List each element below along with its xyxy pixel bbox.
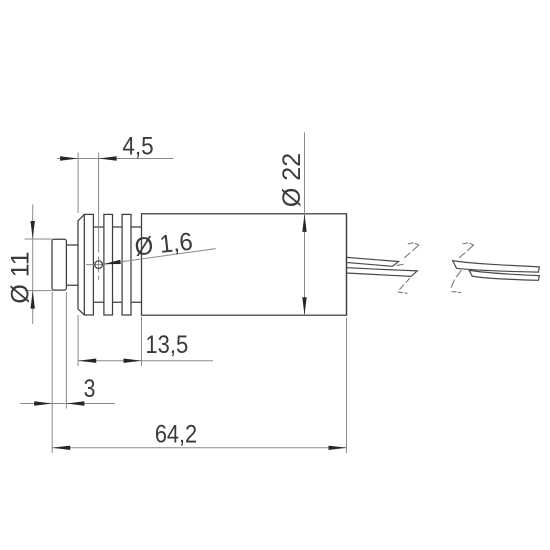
dim O22 top arrow bbox=[302, 214, 306, 232]
dim 13,5 dimension line bbox=[78, 360, 213, 362]
hole centerline horizontal bbox=[86, 264, 105, 266]
heatsink fin F3 bbox=[122, 214, 131, 315]
leader O1,6 arrow bbox=[103, 260, 121, 265]
dim O22 dimension line bbox=[304, 133, 306, 316]
dim O11 bottom arrow bbox=[31, 291, 35, 309]
hole circle bbox=[95, 261, 103, 269]
svg-text:Ø 11: Ø 11 bbox=[7, 251, 35, 303]
dim 4,5 left extension line bbox=[77, 153, 79, 214]
dim 4,5 dimension line bbox=[57, 158, 174, 160]
dim 64,2 left arrow bbox=[52, 446, 70, 450]
neck between barrel and fin1 bbox=[67, 245, 78, 285]
dim 3 right extension line bbox=[65, 292, 67, 409]
dim 4,5 right arrow bbox=[99, 156, 117, 160]
svg-text:13,5: 13,5 bbox=[145, 331, 188, 359]
hole centerline vertical bbox=[98, 153, 100, 281]
wire 1 left segment bbox=[347, 257, 399, 266]
dim 64,2 dimension line bbox=[52, 447, 346, 449]
dim O22 bottom arrow bbox=[302, 297, 306, 315]
wire 2 left segment bbox=[347, 268, 418, 277]
dim 3 left extension line bbox=[51, 292, 53, 453]
heatsink fin F1 chamfered bbox=[78, 214, 93, 315]
cylinder right edge redrawn bbox=[346, 214, 348, 315]
dim 13,5 left extension line bbox=[77, 315, 79, 366]
wire 2 right segment bbox=[469, 270, 539, 280]
svg-text:3: 3 bbox=[84, 375, 96, 403]
leader O1,6 line bbox=[103, 249, 216, 265]
dim 13,5 right extension line bbox=[141, 317, 143, 366]
fin F1 chamfer edge line bbox=[83, 214, 85, 315]
core shaft edges between fins bbox=[93, 227, 141, 302]
dim 13,5 right arrow bbox=[124, 359, 142, 363]
dim 64,2 right extension line bbox=[346, 318, 348, 454]
svg-text:Ø 22: Ø 22 bbox=[278, 153, 306, 207]
dim 3 left arrow bbox=[34, 401, 52, 405]
dim 4,5 left arrow bbox=[60, 156, 78, 160]
dim 3 dimension line bbox=[20, 403, 115, 405]
dim O11 bottom extension line bbox=[25, 290, 53, 292]
heatsink fin F2 bbox=[104, 214, 113, 315]
main cylinder body bbox=[142, 214, 347, 315]
svg-text:64,2: 64,2 bbox=[155, 420, 197, 448]
dim 13,5 left arrow bbox=[78, 359, 96, 363]
break mark left bbox=[397, 243, 419, 294]
dim 3 right arrow bbox=[66, 401, 84, 405]
svg-text:4,5: 4,5 bbox=[122, 133, 153, 161]
lens barrel front cylinder bbox=[52, 239, 66, 290]
break mark right bbox=[451, 243, 474, 293]
dim O11 dimension line bbox=[32, 205, 34, 325]
dim O11 top arrow bbox=[31, 221, 35, 239]
dim O11 top extension line bbox=[25, 238, 53, 240]
wire 1 right segment bbox=[453, 261, 540, 273]
dim 64,2 right arrow bbox=[329, 446, 347, 450]
